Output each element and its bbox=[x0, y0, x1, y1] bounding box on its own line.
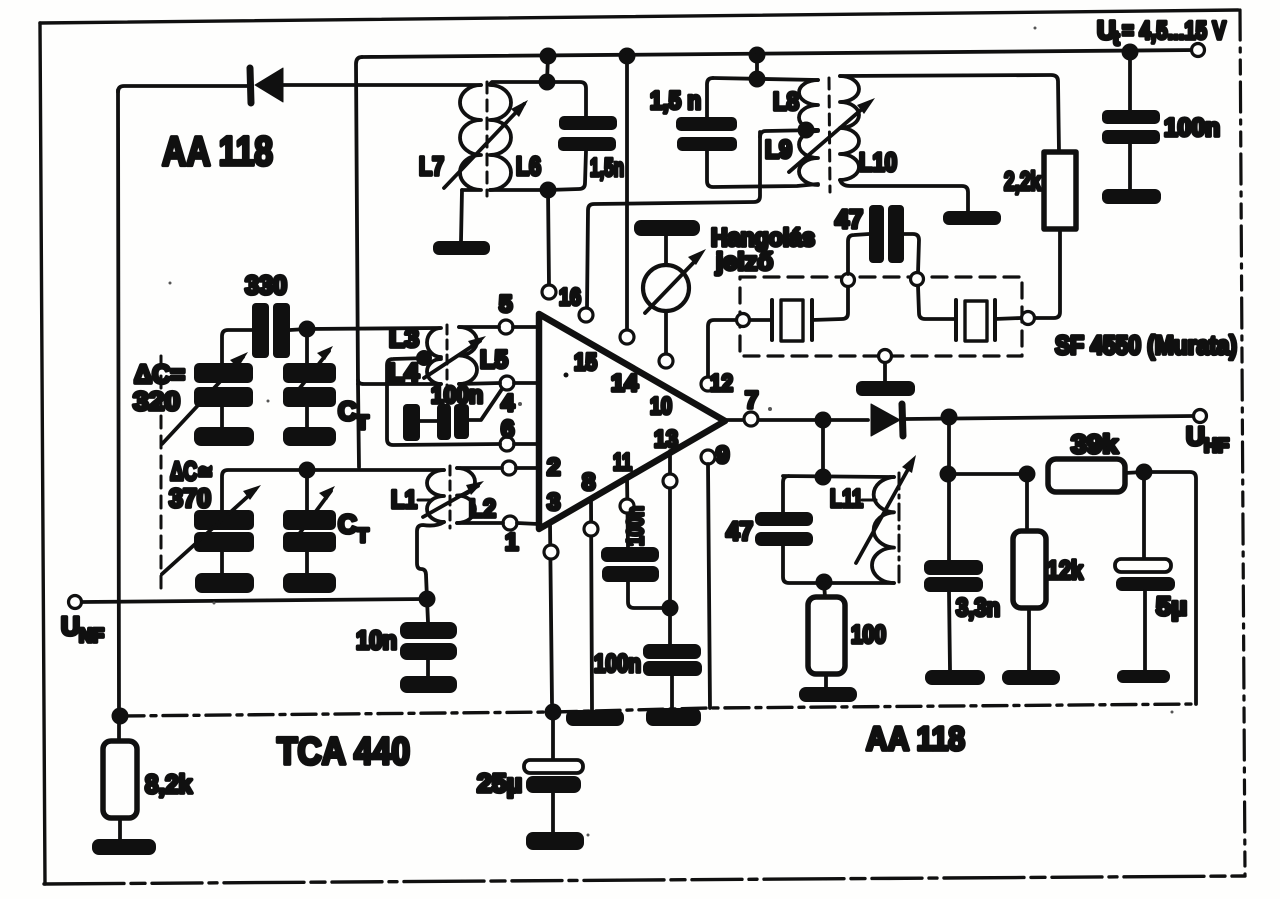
meter needle arrow bbox=[645, 249, 706, 313]
wire resonator2 to output bbox=[995, 318, 1021, 319]
pin circle 1 bbox=[503, 516, 517, 530]
wire var370 stem bbox=[220, 552, 224, 573]
core L11 dash-dot bbox=[898, 473, 901, 588]
svg-text:47: 47 bbox=[726, 516, 753, 546]
wire 12k to ground bbox=[1027, 608, 1031, 670]
junction dot rail x757 bbox=[749, 47, 766, 64]
wire 39k right bbox=[1125, 472, 1144, 473]
arrow trimmer CT lower bbox=[288, 486, 335, 549]
wire rail to 100n top right bbox=[1128, 52, 1132, 110]
inductor L6 winding bbox=[490, 85, 511, 190]
label L11 dash bbox=[862, 499, 876, 502]
svg-text:3: 3 bbox=[547, 489, 560, 516]
svg-text:330: 330 bbox=[245, 270, 287, 300]
svg-text:T: T bbox=[357, 526, 369, 547]
wire L6 top to cap 1.5n bbox=[490, 82, 586, 116]
wire L2 top to pin 2 bbox=[457, 466, 502, 470]
junction dot output left bbox=[815, 412, 832, 429]
wire L8/L9 tap bbox=[760, 130, 818, 137]
svg-text:9: 9 bbox=[716, 442, 729, 469]
pin circle 12 bbox=[701, 377, 715, 391]
svg-text:L6: L6 bbox=[516, 151, 541, 181]
svg-text:NF: NF bbox=[79, 626, 104, 647]
svg-text:L3: L3 bbox=[389, 325, 419, 353]
ground bar under L7 bbox=[433, 241, 490, 255]
svg-text:13: 13 bbox=[654, 426, 678, 453]
svg-text:47: 47 bbox=[835, 204, 863, 234]
wire resonator1 to top circle bbox=[812, 287, 848, 320]
label U NF bbox=[61, 611, 104, 647]
svg-text:14: 14 bbox=[611, 370, 639, 397]
capacitor 25u plate B bbox=[526, 776, 581, 793]
ground bar under 12k bbox=[1002, 670, 1060, 685]
svg-text:U: U bbox=[1186, 421, 1205, 451]
filter SF4550 dashed box bbox=[740, 277, 1022, 356]
wire 10n stem bbox=[427, 599, 428, 622]
junction dot baseline left bbox=[112, 708, 129, 725]
label Ut = 4,5...15 V bbox=[1097, 15, 1226, 50]
wire L4 bottom to rail vertical bbox=[358, 380, 441, 384]
capacitor 10n plate B bbox=[400, 643, 457, 660]
wire 100n to ground bar bbox=[1128, 144, 1132, 189]
speck inside triangle bbox=[564, 373, 569, 378]
wire L11 tank top stem bbox=[821, 420, 825, 477]
speckles bbox=[169, 27, 1174, 837]
svg-text:5µ: 5µ bbox=[1156, 591, 1187, 621]
variable capacitor 370 plate A bbox=[194, 510, 254, 530]
svg-text:L7: L7 bbox=[419, 151, 444, 181]
wire 1.5n mid bottom to L9 bbox=[707, 151, 818, 187]
svg-text:2,2k: 2,2k bbox=[1004, 166, 1041, 196]
pin circle 3 bbox=[544, 545, 558, 559]
variable capacitor 320 plate B bbox=[194, 387, 253, 407]
wire stub pin 4 bbox=[514, 381, 537, 385]
wire L5 top to pin 5 bbox=[459, 325, 499, 329]
svg-text:L4: L4 bbox=[388, 359, 419, 387]
svg-text:1,5 n: 1,5 n bbox=[650, 87, 701, 115]
junction dot 12k top bbox=[1019, 466, 1036, 483]
wire L10 bottom to ground bbox=[840, 180, 968, 211]
svg-text:3,3n: 3,3n bbox=[956, 594, 1000, 622]
wire stub pin 1 bbox=[517, 523, 538, 524]
capacitor 100n A plate B bbox=[602, 566, 659, 582]
junction dot tap L9 bbox=[798, 122, 815, 139]
wire L2 bottom to pin 1 bbox=[457, 521, 503, 525]
wire 25u to ground bbox=[551, 793, 555, 832]
ground bar 100nB bbox=[646, 708, 701, 726]
pin circle 11 bbox=[620, 499, 634, 513]
wire rail left corner down to L4 bbox=[356, 57, 362, 384]
pin circle 10 bbox=[659, 354, 673, 368]
label L1 dash bbox=[418, 499, 432, 502]
svg-text:SF 4550 (Murata): SF 4550 (Murata) bbox=[1055, 330, 1237, 360]
svg-text:100n: 100n bbox=[1164, 114, 1220, 142]
wire 100nA bottom to pin13 wire bbox=[628, 582, 670, 608]
svg-text:t: t bbox=[1113, 29, 1120, 50]
capacitor 100n A plate A bbox=[601, 547, 659, 562]
svg-text:L10: L10 bbox=[859, 147, 897, 177]
inductor L8 winding bbox=[799, 80, 818, 130]
inductor L7 winding bbox=[460, 85, 481, 190]
resistor 39k body bbox=[1048, 459, 1125, 492]
trimmer capacitor CT upper plate B bbox=[283, 387, 336, 407]
wire stub pin 5 bbox=[513, 325, 537, 329]
capacitor 100n top right plate B bbox=[1102, 130, 1160, 144]
wire L6 bottom bbox=[490, 188, 548, 192]
wire meter to pin 10 bbox=[664, 311, 668, 354]
wire 8.2k to ground bbox=[118, 818, 122, 839]
capacitor 25u plate A outline bbox=[524, 760, 583, 773]
wire 39k left bbox=[948, 472, 1027, 476]
arrow variable core L7 bbox=[444, 100, 528, 188]
wire 25u stem bbox=[551, 712, 555, 760]
wire pin 9 down to baseline bbox=[708, 464, 710, 708]
pin circle 9 bbox=[701, 450, 715, 464]
wire 39k to right edge corner bbox=[1144, 472, 1196, 704]
junction dot 100n caps bbox=[662, 600, 679, 617]
capacitor 47 top plate B bbox=[888, 205, 904, 263]
junction dot L3 L4 tap bbox=[416, 350, 432, 366]
svg-text:100: 100 bbox=[851, 621, 886, 649]
capacitor 5u plate A outline bbox=[1115, 559, 1171, 572]
lower tank top wire bbox=[222, 470, 444, 510]
wire 100nB to ground bbox=[670, 676, 674, 708]
arrow variable core L5 bbox=[424, 336, 486, 378]
variable capacitor 320 plate A bbox=[194, 363, 253, 383]
wire L5 bottom to pin 4 bbox=[459, 383, 500, 384]
junction dot output right bbox=[941, 409, 958, 426]
inductor L10 winding bbox=[840, 76, 859, 180]
inductor L2 winding bbox=[457, 468, 475, 523]
capacitor 10n plate A bbox=[400, 622, 457, 639]
pin circle 5 bbox=[499, 320, 513, 334]
svg-text:10: 10 bbox=[650, 393, 672, 420]
svg-text:10n: 10n bbox=[356, 625, 397, 655]
capacitor 3.3n plate A bbox=[924, 560, 983, 575]
junction dot rail x548 bbox=[540, 48, 557, 65]
capacitor 100n B plate A bbox=[643, 644, 701, 659]
border frame bottom bbox=[44, 876, 1245, 884]
meter tuning indicator circle bbox=[643, 265, 689, 311]
capacitor 47 top plate A bbox=[869, 205, 884, 263]
inductor L11 winding bbox=[872, 477, 894, 583]
capacitor 330 plate A bbox=[252, 303, 269, 358]
pin circle 14 bbox=[620, 330, 634, 344]
svg-text:2: 2 bbox=[547, 454, 560, 481]
svg-text:4: 4 bbox=[501, 390, 515, 417]
label U HF bbox=[1186, 421, 1229, 457]
wire 3.3n branch vertical bbox=[947, 417, 951, 560]
pin circle 7 bbox=[744, 412, 758, 426]
junction dot L6 bottom bbox=[540, 182, 557, 199]
wire cap 1.5n bottom to L6 bottom bbox=[548, 151, 586, 190]
wire top circle right to resonator2 bbox=[918, 286, 956, 319]
svg-text:AA 118: AA 118 bbox=[866, 720, 965, 757]
ground bar pin8 bbox=[566, 710, 624, 726]
border frame right bbox=[1240, 10, 1245, 875]
svg-text:12k: 12k bbox=[1047, 555, 1083, 585]
ground bar under 8.2k bbox=[92, 839, 156, 855]
wire var320 stem bbox=[220, 407, 224, 427]
capacitor 100n osc link bbox=[420, 419, 437, 423]
svg-text:25µ: 25µ bbox=[477, 768, 522, 798]
baseline dash-dot ground bus bbox=[120, 704, 1196, 716]
resistor 100 body bbox=[808, 597, 845, 674]
transformer core L1/L2 dashed bbox=[449, 466, 452, 528]
terminal circle Ut bbox=[1192, 44, 1205, 57]
wire CT lower stem bbox=[305, 470, 309, 510]
ground bar meter top bbox=[634, 220, 700, 236]
svg-text:100n: 100n bbox=[431, 382, 483, 409]
label CT lower bbox=[338, 509, 369, 547]
svg-text:L5: L5 bbox=[480, 346, 508, 374]
pin circle 2 bbox=[502, 461, 516, 475]
ground bar under 5u bbox=[1117, 670, 1170, 683]
wire 100 to ground bbox=[824, 674, 828, 687]
capacitor 3.3n plate B bbox=[924, 577, 983, 592]
svg-text:16: 16 bbox=[559, 284, 581, 311]
wire L1 bottom jog to 10n bbox=[417, 522, 444, 599]
transformer core L7/L6 dashed bbox=[486, 82, 489, 196]
svg-text:U: U bbox=[61, 611, 80, 641]
pin circle 8 bbox=[584, 522, 598, 536]
diode D2 AA118 demod bbox=[871, 404, 903, 436]
wire output pin 7 to UHF bbox=[725, 416, 1193, 420]
crystal resonator 1 plates bbox=[772, 300, 812, 341]
capacitor 100n B plate B bbox=[643, 661, 702, 676]
filter input circle bbox=[737, 314, 750, 327]
svg-text:12: 12 bbox=[710, 370, 733, 397]
capacitor 47 tank plate A bbox=[755, 512, 813, 526]
inductor L1 winding bbox=[427, 470, 444, 522]
wire rail vertical down to L1 tank bbox=[358, 384, 359, 467]
wire 8.2k stem bbox=[117, 716, 121, 741]
resistor 8.2k body bbox=[103, 741, 137, 818]
capacitor 100n top right plate A bbox=[1102, 110, 1160, 124]
crystal resonator 2 plates bbox=[956, 300, 995, 341]
wire pin 14 vertical bbox=[625, 56, 629, 330]
inductor L5 winding bbox=[459, 327, 477, 384]
pin circle 13 bbox=[663, 474, 677, 488]
ground bar under 100n top right bbox=[1102, 189, 1161, 204]
capacitor 100n osc plate bar2 bbox=[437, 404, 451, 440]
arrow variable cap 370 bbox=[162, 485, 261, 574]
arrow trimmer CT upper bbox=[288, 346, 333, 403]
svg-text:370: 370 bbox=[169, 483, 211, 513]
label CT upper bbox=[338, 396, 369, 434]
wire 3.3n to ground bbox=[949, 592, 950, 670]
svg-text:L2: L2 bbox=[469, 495, 496, 523]
border frame top bbox=[40, 10, 1238, 23]
trimmer capacitor CT upper plate A bbox=[283, 363, 336, 383]
junction dot L8 top bbox=[749, 71, 766, 88]
arrow variable core L2 bbox=[423, 481, 484, 517]
ground bar under 10n bbox=[400, 676, 457, 693]
transformer core L3/L5 dashed bbox=[446, 325, 449, 390]
wire cap47 left lead bbox=[848, 234, 869, 274]
inductor L4 winding bbox=[427, 359, 441, 384]
transformer core L9/L10 dashed bbox=[829, 78, 830, 192]
wire pin 8 vertical bbox=[591, 498, 592, 710]
wire pin 13 vertical bbox=[668, 451, 672, 644]
inductor L9 winding bbox=[799, 131, 818, 185]
wire tap to pin 6 bbox=[387, 358, 500, 445]
pin circle 16 bbox=[542, 285, 556, 299]
ground bar under L10 bbox=[943, 211, 1001, 225]
svg-text:11: 11 bbox=[613, 449, 632, 476]
wire filter input lead bbox=[750, 318, 772, 322]
ground bar under CT upper bbox=[283, 427, 336, 446]
ground bar under CT lower bbox=[283, 573, 336, 593]
svg-text:320: 320 bbox=[133, 386, 180, 416]
junction dot 5u top bbox=[1136, 464, 1153, 481]
junction dot rail x1130 bbox=[1122, 44, 1139, 61]
filter top circle right bbox=[911, 273, 924, 286]
junction dot osc tank top bbox=[299, 321, 316, 338]
svg-text:= 4,5...15 V: = 4,5...15 V bbox=[1122, 17, 1226, 45]
wire stub pin 6 bbox=[514, 442, 537, 446]
op-amp triangle IC TCA440 bbox=[539, 314, 725, 529]
variable capacitor 370 plate B bbox=[194, 532, 254, 552]
resistor R 2.2k body bbox=[1044, 152, 1076, 229]
svg-text:HF: HF bbox=[1204, 436, 1229, 457]
ground bar under var320 bbox=[194, 427, 254, 446]
wire pin 12 to filter bbox=[708, 320, 736, 377]
svg-text:L11: L11 bbox=[830, 485, 863, 513]
diode D1 AA118 top bbox=[250, 68, 283, 103]
arrow variable core L9/L10 bbox=[789, 98, 875, 172]
wire UNF input bbox=[82, 599, 427, 602]
junction dot lower tank bbox=[299, 462, 316, 479]
wire L10 top to 2.2k bbox=[840, 75, 1059, 152]
wire tap to pin 15 bbox=[587, 132, 760, 308]
wire pin 16 bbox=[548, 190, 549, 285]
capacitor 330 plate B bbox=[273, 303, 290, 358]
svg-text:15: 15 bbox=[574, 349, 597, 376]
filter top circle left bbox=[842, 274, 855, 287]
wire CT upper stem bbox=[305, 329, 309, 363]
wire L7 to ground bbox=[461, 190, 462, 241]
wire 100n osc to pin 4 bbox=[469, 389, 502, 420]
svg-text:1: 1 bbox=[505, 529, 518, 556]
trimmer capacitor CT lower plate A bbox=[283, 510, 336, 530]
capacitor 1.5n middle plate B bbox=[677, 137, 737, 151]
svg-text:TCA 440: TCA 440 bbox=[277, 731, 410, 773]
pin circle 4 bbox=[500, 376, 514, 390]
arrow variable core L11 bbox=[856, 455, 916, 563]
capacitor 100n osc plate bar1 bbox=[403, 404, 420, 441]
ground bar under var370 bbox=[195, 573, 254, 593]
capacitor 5u plate B bbox=[1116, 577, 1175, 591]
ground bar under filter bbox=[856, 381, 915, 396]
svg-text:1,5n: 1,5n bbox=[590, 154, 624, 182]
svg-text:L1: L1 bbox=[391, 486, 417, 514]
wire 100 stem bbox=[824, 583, 825, 597]
capacitor 1.5n middle plate A bbox=[676, 117, 737, 131]
wire left long vertical to 8.2k bbox=[118, 90, 119, 716]
wire CT upper stem2 bbox=[305, 407, 309, 427]
wire pin 11 vertical bbox=[627, 477, 628, 547]
dashed gang line tuning caps bbox=[160, 356, 163, 592]
wire 12k stem bbox=[1025, 474, 1029, 531]
svg-text:8: 8 bbox=[582, 469, 595, 496]
wire stub rail to L8 top bbox=[755, 55, 759, 79]
svg-text:39k: 39k bbox=[1071, 429, 1119, 459]
wire pin 3 vertical bbox=[550, 523, 552, 703]
ground bar under 25u bbox=[526, 832, 584, 850]
svg-text:C: C bbox=[338, 509, 357, 539]
junction dot 10n top bbox=[419, 591, 436, 608]
border frame left bbox=[40, 23, 45, 884]
svg-text:AA 118: AA 118 bbox=[162, 128, 273, 174]
wire filter bottom stem bbox=[883, 363, 887, 381]
wire 5u stem bbox=[1142, 472, 1146, 559]
capacitor 1.5n left plate B bbox=[558, 137, 616, 151]
trimmer capacitor CT lower plate B bbox=[283, 532, 336, 552]
junction dot baseline pin3 bbox=[545, 704, 562, 721]
filter output circle bbox=[1022, 312, 1035, 325]
svg-text:7: 7 bbox=[745, 387, 758, 414]
pin circle 15 bbox=[579, 308, 593, 322]
inductor L3 winding bbox=[427, 328, 441, 357]
wire L8 top lead bbox=[713, 78, 818, 80]
wire 330 to L3 bbox=[290, 328, 440, 330]
wire 5u to ground bbox=[1143, 591, 1147, 670]
wire stub pin 2 bbox=[516, 466, 537, 470]
wire 2.2k bottom to filter output bbox=[1035, 229, 1060, 318]
resistor 12k body bbox=[1013, 531, 1046, 608]
arrow variable cap 320 bbox=[162, 352, 248, 444]
junction dot 39k left bbox=[940, 466, 957, 483]
svg-text:5: 5 bbox=[499, 291, 512, 318]
wire diode branch horizontal bbox=[118, 85, 481, 92]
wire CT lower stem2 bbox=[305, 552, 309, 573]
svg-text:L8: L8 bbox=[773, 88, 799, 116]
wire 10n stem2 bbox=[426, 660, 430, 676]
svg-text:8,2k: 8,2k bbox=[145, 769, 192, 799]
svg-text:6: 6 bbox=[501, 416, 514, 443]
svg-text:L9: L9 bbox=[765, 136, 792, 164]
wire supply rail Ut bbox=[362, 50, 1198, 57]
svg-text:100n: 100n bbox=[622, 506, 648, 546]
wire meter stem top bbox=[664, 236, 668, 265]
junction dot L11 bottom bbox=[816, 574, 833, 591]
wire 1.5n mid top stem bbox=[707, 78, 713, 117]
junction dot rail x627 bbox=[619, 48, 636, 65]
svg-text:ΔC≃: ΔC≃ bbox=[170, 456, 213, 486]
terminal circle UHF bbox=[1194, 410, 1207, 423]
svg-text:C: C bbox=[338, 396, 357, 426]
wire 47 tank bottom bbox=[783, 546, 894, 583]
svg-text:100n: 100n bbox=[594, 650, 641, 678]
wire stub rail to L6 top bbox=[547, 56, 548, 82]
svg-text:jelző: jelző bbox=[715, 248, 773, 276]
capacitor 100n osc plate bar3 bbox=[454, 404, 469, 439]
capacitor 47 tank plate B bbox=[755, 532, 813, 546]
junction dot L6 top bbox=[539, 74, 556, 91]
capacitor 1.5n left plate A bbox=[559, 116, 617, 130]
wire L11 tank top bbox=[783, 476, 894, 512]
filter bottom circle bbox=[879, 350, 892, 363]
pin circle 6 bbox=[500, 437, 514, 451]
ground bar under 3.3n bbox=[925, 670, 985, 685]
ground bar under 100 bbox=[799, 687, 857, 702]
wire cap47 right lead bbox=[904, 234, 919, 273]
terminal circle UNF bbox=[69, 596, 82, 609]
capacitor 330 left lead bbox=[222, 330, 252, 363]
junction dot L11 top bbox=[815, 469, 832, 486]
